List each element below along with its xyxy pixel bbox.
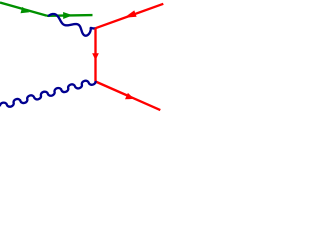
photon propagator (small blue wiggle, exchange photon) <box>48 14 96 36</box>
arrow on red vertical (down) <box>92 53 99 60</box>
fermion line f2 incoming (red, from top-right) <box>96 4 164 28</box>
fermion propagator (red vertical) <box>94 28 96 81</box>
fermion line f1 outgoing (green, to right) <box>47 14 93 17</box>
arrow on incoming green fermion <box>21 7 30 13</box>
arrow on outgoing red fermion <box>125 93 134 99</box>
radiated photon (long blue wavy, to bottom-left) <box>0 81 96 107</box>
arrow on outgoing green fermion <box>63 12 73 19</box>
arrow on incoming red fermion <box>124 10 136 17</box>
fermion line f2 outgoing (red, to bottom-right) <box>96 82 161 111</box>
fermion line f1 incoming (green, top-left) <box>0 3 47 16</box>
